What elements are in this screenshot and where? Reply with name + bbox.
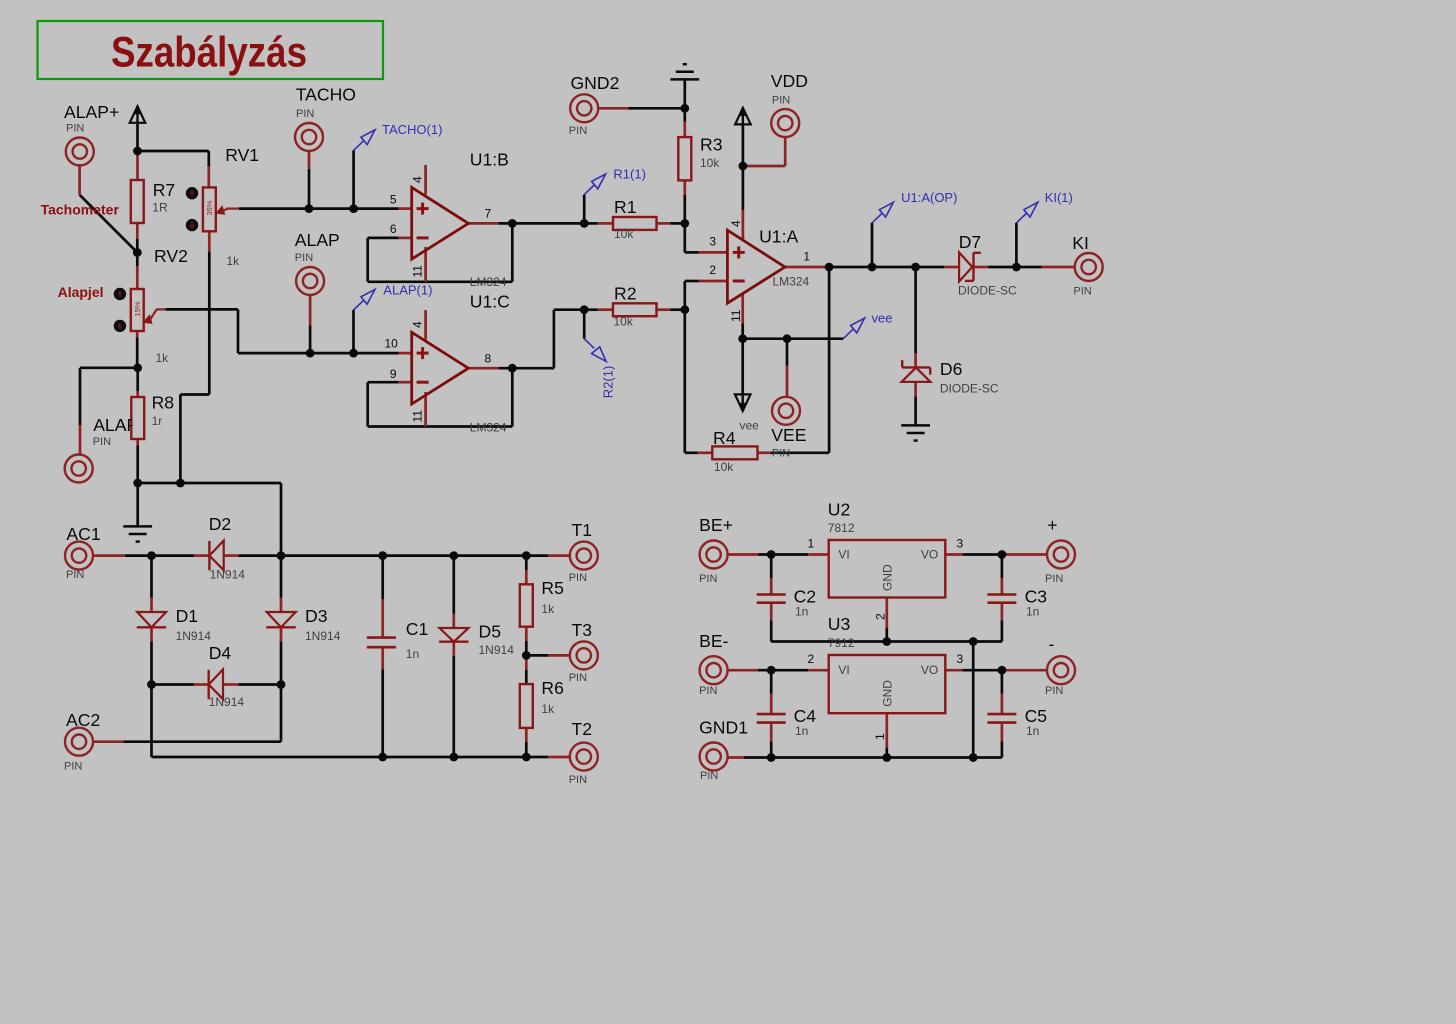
svg-text:10k: 10k: [714, 460, 734, 474]
svg-text:PIN: PIN: [569, 572, 587, 584]
svg-text:1N914: 1N914: [479, 643, 515, 657]
svg-text:1n: 1n: [1026, 605, 1039, 619]
svg-text:3: 3: [957, 652, 964, 666]
svg-text:7: 7: [485, 206, 492, 220]
svg-text:U1:A(OP): U1:A(OP): [901, 190, 957, 205]
svg-text:U1:A: U1:A: [759, 226, 798, 246]
svg-text:VI: VI: [838, 548, 849, 562]
svg-text:VO: VO: [921, 548, 938, 562]
svg-text:D6: D6: [940, 359, 963, 379]
svg-text:1N914: 1N914: [209, 695, 245, 709]
svg-text:R6: R6: [541, 678, 564, 698]
svg-text:LM324: LM324: [470, 275, 507, 289]
svg-text:R8: R8: [152, 393, 175, 413]
svg-text:11: 11: [411, 410, 425, 423]
svg-text:1n: 1n: [1026, 724, 1039, 738]
svg-text:1N914: 1N914: [305, 629, 341, 643]
svg-text:PIN: PIN: [296, 108, 314, 120]
svg-text:8: 8: [485, 352, 492, 366]
svg-text:DIODE-SC: DIODE-SC: [958, 284, 1017, 298]
svg-text:AC1: AC1: [66, 524, 100, 544]
svg-text:PIN: PIN: [699, 573, 717, 585]
svg-text:D7: D7: [959, 232, 982, 252]
svg-text:KI(1): KI(1): [1045, 190, 1073, 205]
svg-text:2: 2: [874, 613, 888, 620]
svg-text:RV2: RV2: [154, 246, 188, 266]
svg-text:GND1: GND1: [699, 718, 748, 738]
svg-text:1: 1: [808, 537, 815, 551]
svg-text:D3: D3: [305, 606, 328, 626]
svg-text:11: 11: [411, 265, 425, 278]
svg-text:1r: 1r: [152, 414, 163, 428]
svg-text:U2: U2: [828, 500, 851, 520]
svg-text:GND: GND: [880, 564, 894, 591]
svg-text:4: 4: [411, 321, 425, 328]
svg-text:PIN: PIN: [66, 569, 84, 581]
svg-text:BE+: BE+: [699, 515, 733, 535]
svg-text:KI: KI: [1072, 233, 1089, 253]
svg-text:DIODE-SC: DIODE-SC: [940, 382, 999, 396]
svg-text:vee: vee: [740, 419, 760, 433]
svg-text:T3: T3: [572, 620, 593, 640]
svg-text:R1(1): R1(1): [613, 167, 646, 182]
svg-text:10k: 10k: [614, 315, 634, 329]
svg-text:U1:B: U1:B: [470, 149, 509, 169]
svg-text:1: 1: [873, 733, 887, 740]
svg-text:C3: C3: [1025, 587, 1048, 607]
svg-text:15%: 15%: [133, 301, 142, 316]
svg-text:PIN: PIN: [1073, 285, 1091, 297]
svg-text:PIN: PIN: [700, 770, 718, 782]
svg-text:ALAP+: ALAP+: [64, 102, 119, 122]
svg-text:1k: 1k: [226, 254, 240, 268]
svg-text:Szabályzás: Szabályzás: [111, 29, 307, 77]
svg-text:1k: 1k: [156, 351, 170, 365]
svg-text:5: 5: [390, 193, 397, 207]
svg-text:ALAP(1): ALAP(1): [383, 282, 432, 297]
svg-text:RV1: RV1: [225, 145, 259, 165]
svg-text:10k: 10k: [614, 227, 634, 241]
svg-text:R2(1): R2(1): [600, 366, 615, 399]
svg-text:Alapjel: Alapjel: [58, 284, 104, 300]
svg-text:4: 4: [411, 176, 425, 183]
svg-text:9: 9: [390, 367, 397, 381]
svg-text:PIN: PIN: [64, 761, 82, 773]
svg-text:2: 2: [709, 263, 716, 277]
svg-text:vee: vee: [872, 311, 893, 326]
svg-text:C2: C2: [794, 587, 817, 607]
svg-text:D1: D1: [176, 606, 199, 626]
svg-text:U3: U3: [828, 614, 851, 634]
svg-text:PIN: PIN: [699, 685, 717, 697]
svg-text:6: 6: [390, 222, 397, 236]
svg-text:1n: 1n: [406, 647, 419, 661]
svg-text:PIN: PIN: [93, 436, 111, 448]
svg-text:D2: D2: [209, 514, 232, 534]
svg-text:1R: 1R: [152, 201, 168, 215]
svg-text:PIN: PIN: [569, 672, 587, 684]
svg-text:2: 2: [808, 652, 815, 666]
svg-text:3: 3: [709, 235, 716, 249]
svg-text:PIN: PIN: [1045, 573, 1063, 585]
svg-text:GND: GND: [880, 680, 894, 707]
svg-text:AC2: AC2: [66, 710, 100, 730]
svg-text:1n: 1n: [795, 724, 808, 738]
svg-text:R5: R5: [541, 578, 564, 598]
svg-text:PIN: PIN: [772, 448, 790, 460]
svg-text:VEE: VEE: [771, 425, 806, 445]
svg-text:T2: T2: [572, 719, 593, 739]
svg-text:PIN: PIN: [772, 95, 790, 107]
svg-text:1k: 1k: [541, 702, 555, 716]
svg-text:VO: VO: [921, 663, 938, 677]
svg-text:10: 10: [384, 337, 398, 351]
svg-text:T1: T1: [572, 520, 593, 540]
svg-text:D5: D5: [479, 622, 502, 642]
svg-text:R2: R2: [614, 284, 637, 304]
svg-text:PIN: PIN: [569, 125, 587, 137]
svg-text:LM324: LM324: [773, 274, 810, 288]
svg-text:C1: C1: [406, 619, 429, 639]
svg-text:VI: VI: [838, 663, 849, 677]
svg-text:10k: 10k: [700, 156, 720, 170]
svg-text:TACHO: TACHO: [296, 85, 356, 105]
svg-text:-: -: [1049, 634, 1055, 654]
svg-text:35%: 35%: [205, 200, 214, 215]
svg-text:7812: 7812: [828, 521, 855, 535]
svg-text:R1: R1: [614, 197, 637, 217]
svg-text:11: 11: [729, 309, 743, 322]
svg-text:1: 1: [803, 250, 810, 264]
svg-text:1n: 1n: [795, 605, 808, 619]
svg-text:4: 4: [729, 220, 743, 227]
svg-text:7912: 7912: [828, 636, 855, 650]
svg-text:GND2: GND2: [571, 73, 620, 93]
svg-text:Tachometer: Tachometer: [41, 201, 120, 217]
svg-text:1N914: 1N914: [176, 629, 212, 643]
svg-text:+: +: [1047, 515, 1057, 535]
svg-text:U1:C: U1:C: [470, 292, 510, 312]
svg-text:1k: 1k: [541, 602, 555, 616]
svg-text:PIN: PIN: [569, 774, 587, 786]
svg-text:PIN: PIN: [1045, 685, 1063, 697]
svg-text:1N914: 1N914: [210, 567, 246, 581]
svg-text:R3: R3: [700, 135, 723, 155]
svg-text:LM324: LM324: [470, 421, 507, 435]
svg-text:PIN: PIN: [66, 122, 84, 134]
svg-text:TACHO(1): TACHO(1): [382, 122, 442, 137]
svg-text:PIN: PIN: [295, 252, 313, 264]
svg-text:R7: R7: [153, 180, 176, 200]
svg-text:3: 3: [957, 537, 964, 551]
svg-text:R4: R4: [713, 428, 736, 448]
svg-text:D4: D4: [209, 643, 232, 663]
svg-text:ALAP: ALAP: [295, 230, 340, 250]
svg-text:VDD: VDD: [771, 71, 808, 91]
svg-text:BE-: BE-: [699, 631, 728, 651]
